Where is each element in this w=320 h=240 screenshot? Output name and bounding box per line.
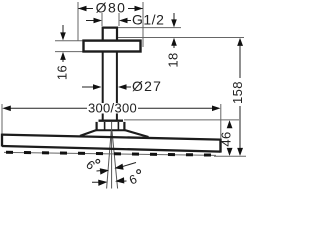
spray face thin line <box>4 152 216 155</box>
pipe lower segment <box>102 114 104 120</box>
cone flare right <box>125 130 149 137</box>
dim G1/2 ext lines <box>101 13 103 26</box>
svg-text:158: 158 <box>230 81 245 104</box>
head bottom edge <box>2 146 221 152</box>
spray line left <box>107 131 112 189</box>
bottom baseline <box>214 155 246 157</box>
flange left ext lines (16) <box>55 40 83 42</box>
svg-text:Ø27: Ø27 <box>132 78 162 94</box>
nozzle dashes <box>6 152 215 155</box>
spray center line <box>111 122 113 189</box>
pipe cap <box>99 119 124 121</box>
svg-text:G1/2: G1/2 <box>132 12 164 28</box>
dim 18 vertical + arrows <box>173 13 175 20</box>
dim Ø80 ext line right <box>142 2 144 47</box>
callout arrow lower-right <box>121 180 127 182</box>
dim 46 vertical + arrows <box>227 120 233 128</box>
line stub top extension <box>118 27 181 29</box>
label 6° lower <box>127 172 139 188</box>
head left edge <box>1 134 3 147</box>
svg-text:46: 46 <box>219 131 234 146</box>
nut <box>95 122 97 130</box>
dim G1/2 arrows <box>86 20 95 22</box>
dim Ø80 line + arrows <box>79 8 143 10</box>
dim Ø80 ext line left <box>77 2 79 41</box>
dim 16 vertical + arrows <box>62 25 64 33</box>
cone flare left <box>80 130 97 136</box>
spray line right <box>112 131 118 189</box>
stub (ceiling connector thread) <box>103 28 117 41</box>
dim 158 vertical + arrows <box>237 38 243 46</box>
dim 300/300 line + arrows <box>10 107 87 109</box>
svg-text:18: 18 <box>166 52 181 67</box>
callout arrow lower-left <box>92 181 100 183</box>
dim 300/300 ext line right <box>220 104 222 140</box>
svg-text:Ø80: Ø80 <box>96 0 127 16</box>
label 6° upper <box>83 158 97 173</box>
dim Ø27 arrows <box>82 86 95 88</box>
ceiling line <box>118 37 244 39</box>
head top edge <box>2 135 221 140</box>
svg-text:300/300: 300/300 <box>88 101 137 116</box>
callout arrow upper-left <box>97 170 103 173</box>
svg-text:16: 16 <box>55 65 70 80</box>
head right edge <box>219 139 221 153</box>
callout arrow upper-right <box>121 163 136 168</box>
dim 300/300 ext line left <box>1 104 3 135</box>
flange (ceiling escutcheon) <box>84 41 141 52</box>
dim 46 top ext line <box>124 119 239 121</box>
pipe upper segment <box>102 52 104 103</box>
